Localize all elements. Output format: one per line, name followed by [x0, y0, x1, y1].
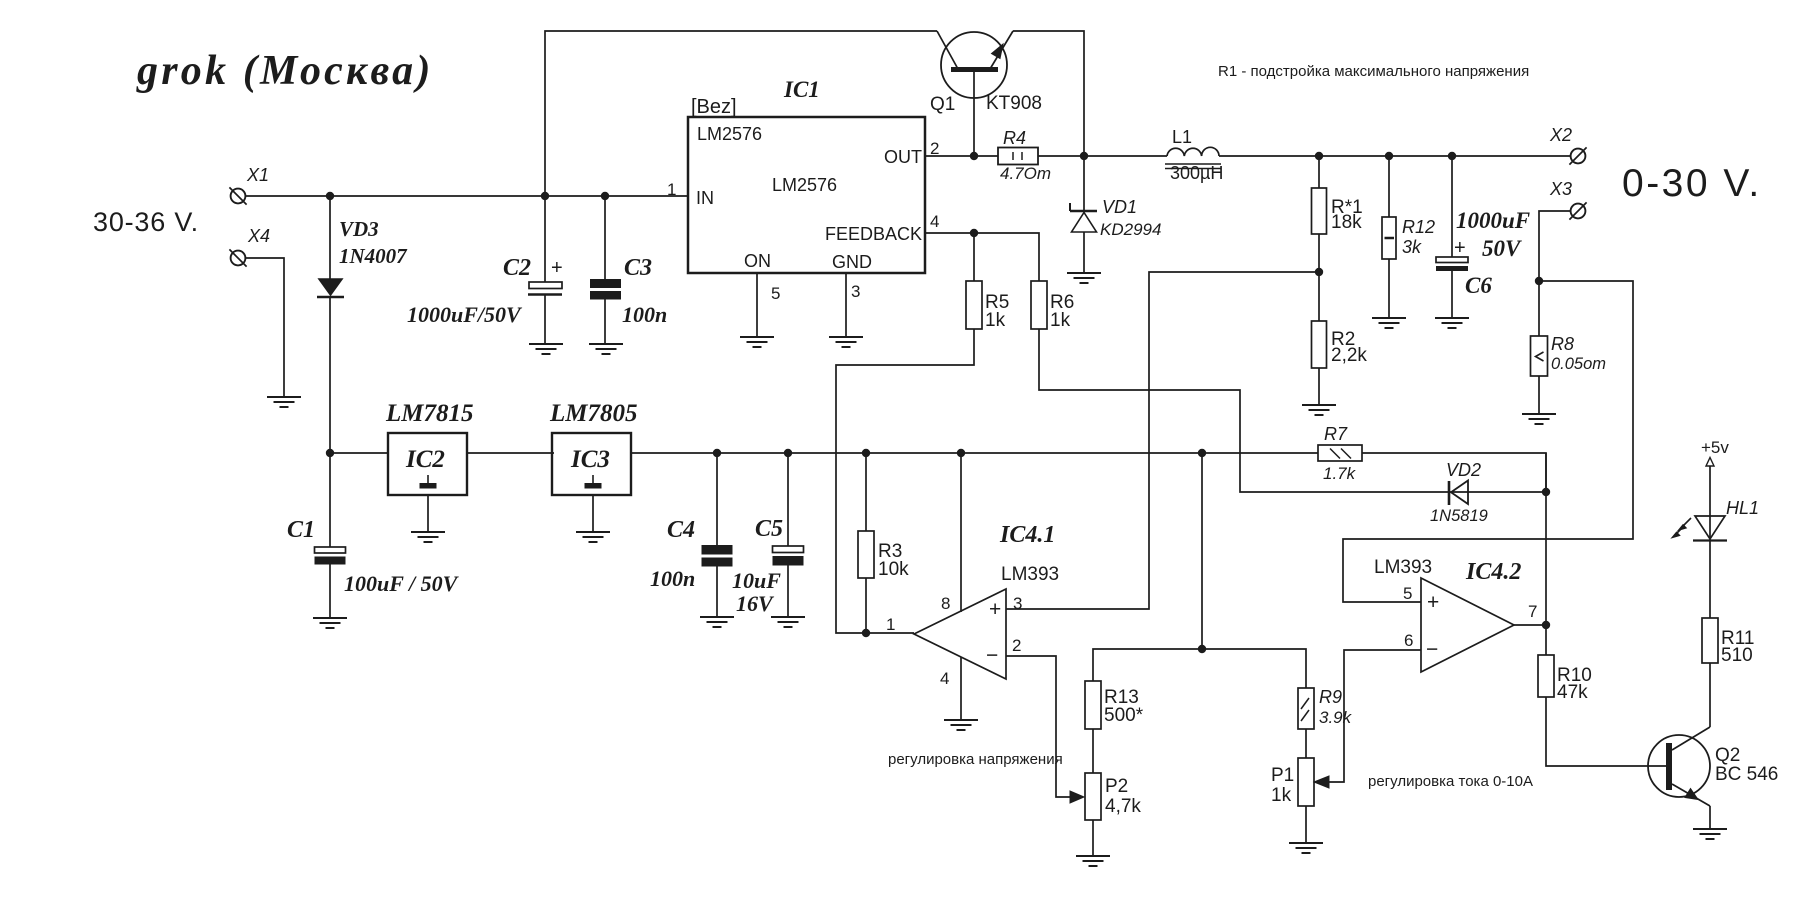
svg-text:0-30 V.: 0-30 V. [1622, 162, 1762, 205]
transistor Q1 KT908 [941, 32, 1007, 98]
node divider feed rail junction [1198, 449, 1206, 457]
svg-text:ON: ON [744, 251, 771, 271]
LED HL1 [1695, 516, 1725, 539]
resistor R12 3k [1388, 156, 1390, 217]
diode VD3 1N4007 [329, 195, 331, 279]
terminal X3 [1571, 204, 1586, 219]
terminal X2 [1571, 149, 1586, 164]
svg-text:BC 546: BC 546 [1715, 764, 1778, 785]
svg-text:10k: 10k [878, 559, 909, 580]
node X3/R8 junction [1535, 277, 1543, 285]
wire P1 to ground [1305, 806, 1307, 842]
svg-text:4: 4 [930, 212, 939, 231]
svg-text:X4: X4 [247, 226, 270, 246]
wire top bypass left (IN node up and across to Q1) [545, 31, 937, 196]
wire IC1 GND pin to ground [845, 273, 847, 336]
wire OUT to R4 [925, 155, 998, 157]
wire IC4.1 pin 8 to rail [960, 453, 962, 612]
svg-text:LM2576: LM2576 [772, 175, 837, 195]
svg-text:R9: R9 [1319, 687, 1342, 707]
ground X4 [267, 396, 301, 398]
svg-text:100n: 100n [622, 302, 667, 327]
ground R2 [1302, 404, 1336, 406]
svg-text:−: − [1426, 638, 1438, 661]
node C2/top-wire junction [541, 192, 549, 200]
wire R8 node to IC4.2 plus path [1343, 281, 1633, 602]
svg-text:LM7815: LM7815 [385, 400, 474, 427]
svg-text:7: 7 [1528, 602, 1537, 621]
svg-text:LM2576: LM2576 [697, 124, 762, 144]
wire R3 to output node [865, 578, 867, 633]
svg-text:KT908: KT908 [986, 93, 1042, 114]
svg-text:100n: 100n [650, 566, 695, 591]
wire L1 to X2 [1219, 155, 1570, 157]
svg-text:P2: P2 [1105, 776, 1128, 797]
resistor R13 500* [1085, 681, 1101, 729]
wire divider node R13 to R9 [1093, 649, 1306, 688]
svg-text:HL1: HL1 [1726, 498, 1759, 518]
wire R12 to ground [1388, 259, 1390, 317]
svg-text:16V: 16V [736, 591, 775, 616]
ground R12 [1372, 317, 1406, 319]
ground P2 [1076, 855, 1110, 857]
wire R10 to Q2 base [1546, 697, 1666, 766]
node R*1 junction [1315, 152, 1323, 160]
svg-text:1: 1 [886, 615, 895, 634]
ground C6 [1435, 317, 1469, 319]
svg-text:1N5819: 1N5819 [1430, 507, 1488, 525]
svg-text:grok (Москва): grok (Москва) [136, 48, 434, 94]
ground R8 [1522, 413, 1556, 415]
ground C2 [529, 343, 563, 345]
wire output column R7 VD2 R10 [1545, 453, 1547, 655]
node C3 junction [601, 192, 609, 200]
svg-text:1k: 1k [1050, 310, 1071, 331]
resistor R9 3.9k variable [1298, 688, 1314, 729]
svg-text:IC2: IC2 [405, 446, 445, 473]
svg-text:Q2: Q2 [1715, 745, 1740, 766]
node VD2 cathode junction [1542, 488, 1550, 496]
svg-text:47k: 47k [1557, 682, 1588, 703]
svg-text:4,7k: 4,7k [1105, 796, 1141, 817]
node VD3/C1 rail junction [326, 449, 334, 457]
wire IC1 ON pin to ground [756, 273, 758, 336]
node R13/R9 divider junction [1198, 645, 1206, 653]
wire R*1 to R2 junction [1318, 234, 1320, 321]
svg-text:R8: R8 [1551, 334, 1574, 354]
svg-text:1: 1 [667, 180, 676, 199]
node VD1/Q1 junction [1080, 152, 1088, 160]
wire R4 to L1 [1038, 155, 1167, 157]
ground VD1 [1067, 272, 1101, 274]
svg-text:OUT: OUT [884, 147, 922, 167]
capacitor C5 10uF 16V [787, 453, 789, 546]
svg-text:C4: C4 [667, 517, 695, 543]
resistor R11 510 [1702, 618, 1718, 663]
wire +5v to HL1 [1709, 466, 1711, 540]
op-amp IC4.1 LM393 (points left) [914, 589, 1006, 679]
svg-text:VD1: VD1 [1102, 197, 1137, 217]
svg-text:18k: 18k [1331, 212, 1362, 233]
svg-text:3: 3 [851, 282, 860, 301]
svg-text:LM393: LM393 [1374, 557, 1432, 578]
transistor Q2 BC546 [1648, 735, 1710, 797]
node X1/VD3 junction [326, 192, 334, 200]
resistor R10 47k [1538, 655, 1554, 697]
svg-text:1000uF: 1000uF [1456, 208, 1530, 233]
svg-text:R4: R4 [1003, 128, 1026, 148]
svg-text:L1: L1 [1172, 127, 1192, 147]
svg-text:1N4007: 1N4007 [339, 244, 408, 268]
resistor R3 10k [865, 453, 867, 531]
node IC4.1 output junction [862, 629, 870, 637]
svg-text:FEEDBACK: FEEDBACK [825, 224, 922, 244]
svg-text:510: 510 [1721, 645, 1753, 666]
wire P2 to ground [1092, 820, 1094, 855]
svg-text:C2: C2 [503, 255, 531, 281]
svg-text:8: 8 [941, 594, 950, 613]
wire R6 bottom to VD2 anode [1039, 329, 1447, 492]
wire IC4.2 output pin 7 [1514, 624, 1546, 626]
wire R2 to ground [1318, 368, 1320, 404]
wire R13 to P2 [1092, 729, 1094, 773]
svg-text:500*: 500* [1104, 705, 1144, 726]
svg-text:LM393: LM393 [1001, 564, 1059, 585]
svg-text:+: + [989, 598, 1001, 621]
wire VD3 to IC2 [330, 452, 389, 454]
capacitor C6 1000uF 50V [1451, 156, 1453, 257]
resistor R7 1.7k [1318, 445, 1362, 461]
wire IC3 GND pin [592, 495, 594, 531]
svg-text:X1: X1 [246, 165, 269, 185]
node C4 rail junction [713, 449, 721, 457]
ground IC1 ON [740, 336, 774, 338]
diode VD1 KD2994 zener [1083, 156, 1085, 211]
ground IC3 [576, 531, 610, 533]
diode VD2 1N5819 schottky [1447, 491, 1546, 493]
svg-text:регулировка напряжения: регулировка напряжения [888, 751, 1063, 768]
node pin8 rail junction [957, 449, 965, 457]
resistor R5 1k [973, 233, 975, 281]
resistor R*1 18k [1318, 156, 1320, 188]
wire HL1 to R11 [1709, 541, 1711, 618]
svg-text:KD2994: KD2994 [1100, 220, 1161, 239]
wire R5 bottom to IC4.1 output [836, 329, 974, 633]
capacitor C3 100n [604, 196, 606, 279]
capacitor C2 1000uF/50V [544, 196, 546, 282]
terminal X1 [231, 189, 246, 204]
svg-text:1.7k: 1.7k [1323, 464, 1357, 483]
svg-text:GND: GND [832, 252, 872, 272]
svg-text:30-36 V.: 30-36 V. [93, 207, 199, 237]
wire R8 to ground [1538, 376, 1540, 413]
ground IC4.1 pin 4 [944, 719, 978, 721]
svg-text:2: 2 [1012, 636, 1021, 655]
svg-text:1k: 1k [985, 310, 1006, 331]
svg-text:X3: X3 [1549, 179, 1572, 199]
svg-text:1k: 1k [1271, 785, 1292, 806]
svg-text:C1: C1 [287, 517, 315, 543]
resistor R2 2.2k [1312, 321, 1327, 368]
wire IC2 GND pin [427, 495, 429, 531]
svg-text:VD3: VD3 [339, 217, 379, 241]
op IC1 LM2576 box [688, 117, 925, 273]
capacitor C1 100uF/50V [329, 453, 331, 547]
svg-text:+5v: +5v [1701, 438, 1729, 457]
svg-text:4: 4 [940, 669, 949, 688]
wire P1 wiper to IC4.2 minus input [1329, 650, 1421, 782]
node R*1/R2 divider junction [1315, 268, 1323, 276]
svg-text:C6: C6 [1465, 273, 1492, 298]
ground C3 [589, 343, 623, 345]
resistor R4 4.7Om [998, 148, 1038, 165]
wire R11 to Q2 collector [1709, 663, 1711, 727]
wire IC3 to R7 [631, 452, 1318, 454]
potentiometer P1 1k [1298, 758, 1314, 806]
svg-text:1000uF/50V: 1000uF/50V [407, 302, 523, 327]
svg-text:X2: X2 [1549, 125, 1572, 145]
ground C4 [700, 616, 734, 618]
svg-text:P1: P1 [1271, 765, 1294, 786]
wire IC2 to IC3 [467, 452, 554, 454]
wire X3 to R8 node [1539, 211, 1570, 336]
node R3 rail junction [862, 449, 870, 457]
wire R7 to VD2 junction corner [1362, 453, 1546, 492]
svg-text:IC4.2: IC4.2 [1465, 559, 1521, 585]
svg-text:IC1: IC1 [783, 77, 820, 102]
svg-text:IC3: IC3 [570, 446, 610, 473]
svg-text:3: 3 [1013, 594, 1022, 613]
ground IC1 GND [829, 336, 863, 338]
ground IC2 [411, 531, 445, 533]
node IC4.2 output junction [1542, 621, 1550, 629]
node R12 junction [1385, 152, 1393, 160]
resistor R8 0.05om shunt [1531, 336, 1548, 376]
svg-text:LM7805: LM7805 [549, 400, 638, 427]
svg-text:C3: C3 [624, 255, 652, 281]
ground Q2 emitter [1693, 828, 1727, 830]
ground C5 [771, 616, 805, 618]
inductor L1 300uH [1167, 147, 1219, 156]
wire R9 to P1 [1305, 729, 1307, 758]
svg-text:50V: 50V [1482, 236, 1522, 261]
wire top bypass right (Q1 to OUT node) [1013, 31, 1084, 156]
wire X1 to IC1 IN [246, 195, 688, 197]
node C5 rail junction [784, 449, 792, 457]
svg-text:R1 - подстройка максимального: R1 - подстройка максимального напряжения [1218, 63, 1529, 80]
svg-text:5: 5 [771, 284, 780, 303]
svg-text:2,2k: 2,2k [1331, 345, 1367, 366]
svg-text:+: + [1427, 591, 1439, 614]
resistor R6 1k [1031, 281, 1047, 329]
svg-text:10uF: 10uF [732, 568, 781, 593]
svg-text:−: − [986, 644, 998, 667]
svg-text:IN: IN [696, 188, 714, 208]
wire IC4.1 minus input to P2 wiper [1006, 656, 1070, 797]
capacitor C4 100n [716, 453, 718, 545]
svg-text:VD2: VD2 [1446, 460, 1481, 480]
svg-text:300µH: 300µH [1170, 163, 1223, 183]
svg-text:4.7Om: 4.7Om [1000, 164, 1051, 183]
svg-text:0.05om: 0.05om [1551, 355, 1606, 373]
svg-text:5: 5 [1403, 584, 1412, 603]
wire R2 junction to IC4.1 plus input [1006, 272, 1319, 609]
node C6 junction [1448, 152, 1456, 160]
svg-text:R12: R12 [1402, 217, 1435, 237]
svg-text:3k: 3k [1402, 237, 1422, 257]
svg-text:+: + [1454, 237, 1466, 259]
svg-text:IC4.1: IC4.1 [999, 522, 1055, 548]
ground C1 [313, 617, 347, 619]
svg-text:R7: R7 [1324, 424, 1348, 444]
wire X4 to ground [246, 258, 284, 396]
svg-text:C5: C5 [755, 516, 783, 542]
svg-text:+: + [551, 257, 563, 279]
wire FEEDBACK to R5 and R6 [925, 233, 1039, 281]
svg-text:3.9k: 3.9k [1319, 708, 1353, 727]
ground P1 [1289, 842, 1323, 844]
svg-text:6: 6 [1404, 631, 1413, 650]
node Q1 base junction [970, 152, 978, 160]
wire rail down to divider node [1201, 453, 1203, 649]
potentiometer P2 4.7k [1085, 773, 1101, 820]
svg-text:Q1: Q1 [930, 94, 955, 115]
svg-text:регулировка тока 0-10A: регулировка тока 0-10A [1368, 773, 1533, 790]
node R5 feedback junction [970, 229, 978, 237]
op-amp IC4.2 LM393 (points right) [1421, 578, 1514, 672]
svg-text:100uF / 50V: 100uF / 50V [344, 571, 460, 596]
terminal X4 [231, 251, 246, 266]
wire IC4.1 pin 4 to ground [960, 657, 962, 719]
svg-text:[Bez]: [Bez] [691, 96, 737, 118]
